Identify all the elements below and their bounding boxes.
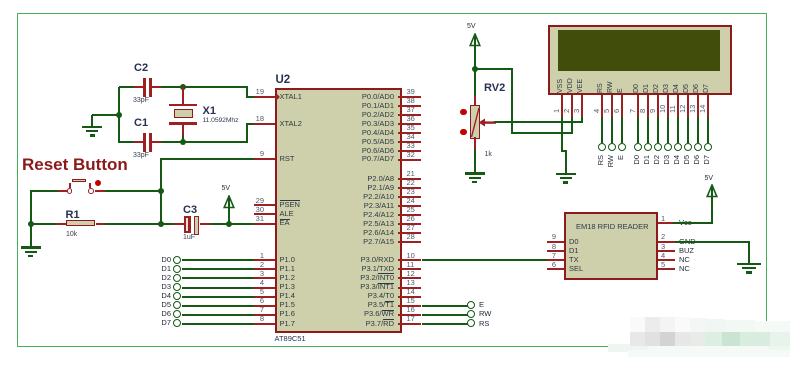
wire RST row: [162, 158, 255, 160]
EM18 pin label D0: [569, 238, 579, 246]
wire Vcc to 5V: [673, 222, 713, 224]
terminal LCD D4: [674, 143, 682, 151]
pin stub P1.1: [254, 268, 275, 270]
pin number 15: [407, 297, 415, 305]
wire button right: [105, 190, 162, 192]
EM18 pin stub Vcc: [658, 222, 675, 224]
wire LCD D3 to terminal: [667, 117, 669, 143]
label terminal D4: [153, 292, 171, 300]
pin number 3: [250, 270, 264, 278]
pin stub ALE: [254, 213, 275, 215]
pin stub P2.2: [398, 196, 422, 198]
LCD pin 6 stub: [621, 95, 623, 117]
value C1 33pF: [133, 152, 149, 160]
LCD pin number 14: [699, 104, 707, 112]
pin stub P1.0: [254, 259, 275, 261]
pin label P1.0: [280, 256, 295, 264]
power 5V arrow RV2: [468, 33, 482, 47]
pin number 11: [407, 261, 415, 269]
pin stub P3.2: [398, 277, 422, 279]
LCD pin label VEE: [577, 78, 585, 92]
junction left R1: [28, 221, 34, 227]
junction C2 crystal: [180, 84, 186, 90]
terminal D6 left: [173, 310, 181, 318]
pin number 5: [250, 288, 264, 296]
LCD pin number 12: [679, 104, 687, 112]
pin stub P2.4: [398, 214, 422, 216]
pin label P1.6: [280, 310, 295, 318]
pin number 33: [407, 142, 415, 150]
wire XTAL2 corner: [246, 123, 255, 125]
capacitor C3 pin right: [200, 223, 210, 225]
wire D7 to P1.7: [182, 323, 254, 325]
pin number 35: [407, 124, 415, 132]
button pin right: [95, 190, 105, 192]
pin number 19: [250, 88, 264, 96]
LCD pin label D0: [633, 84, 641, 93]
microcontroller U2 body: [275, 88, 402, 333]
pin label P0.5/AD5: [316, 138, 394, 146]
LCD pin 14 stub: [707, 95, 709, 117]
pin label P2.3/A11: [316, 202, 394, 210]
wire VSS to ground: [565, 151, 567, 173]
pin number 26: [407, 215, 415, 223]
EM18 pin label NC5: [679, 265, 690, 273]
pin stub P0.6: [398, 150, 422, 152]
pin number 12: [407, 270, 415, 278]
LCD pin label D5: [683, 84, 691, 93]
label C2: [134, 62, 148, 74]
pin label P0.1/AD1: [316, 102, 394, 110]
crystal X1 top pin: [182, 87, 184, 104]
label C1: [134, 117, 148, 129]
LCD pin 10 stub: [667, 95, 669, 117]
pin stub P2.7: [398, 241, 422, 243]
pin label P0.0/AD0: [316, 93, 394, 101]
capacitor C2 pin right: [152, 86, 162, 88]
pin label P3.5: [316, 301, 394, 309]
capacitor C2: [143, 78, 146, 97]
pin label P3.6: [316, 310, 394, 318]
terminal E: [467, 301, 475, 309]
junction reset R1: [158, 221, 164, 227]
pin label RST: [280, 155, 295, 163]
pin number 17: [407, 315, 415, 323]
LCD pin 13 stub: [697, 95, 699, 117]
LCD pin label D3: [663, 84, 671, 93]
pin label P0.2/AD2: [316, 111, 394, 119]
label terminal LCD D4: [673, 155, 681, 177]
label terminal LCD RS: [597, 155, 605, 177]
terminal LCD D0: [634, 143, 642, 151]
EM18 pin number 2: [661, 233, 665, 241]
wire GND drop: [748, 242, 750, 263]
power 5V stem EM18: [711, 187, 713, 225]
label X1: [203, 105, 216, 117]
wire C3 to EA: [210, 223, 255, 225]
label terminal LCD RW: [607, 155, 615, 177]
wire XTAL1 corner: [246, 96, 255, 98]
label Reset Button: [22, 155, 128, 174]
wire D2 to P1.2: [182, 277, 254, 279]
pin number 10: [407, 252, 415, 260]
LCD pin 7 stub: [637, 95, 639, 117]
terminal D0 left: [173, 256, 181, 264]
label U2: [276, 74, 291, 87]
pin number 7: [250, 306, 264, 314]
LCD pin 4 stub: [601, 95, 603, 117]
label terminal D2: [153, 274, 171, 282]
pot RV2 top pin: [474, 96, 476, 107]
label RV2: [484, 82, 505, 94]
wire VDD run: [512, 132, 573, 134]
terminal RS: [467, 319, 475, 327]
wire XTAL2 rise: [246, 124, 248, 142]
terminal LCD D2: [654, 143, 662, 151]
wire LCD D2 to terminal: [657, 117, 659, 143]
wire R1 left: [31, 223, 57, 225]
terminal D4 left: [173, 292, 181, 300]
crystal X1: [169, 104, 197, 107]
pin number 16: [407, 306, 415, 314]
label terminal D1: [153, 265, 171, 273]
label terminal RW: [479, 310, 491, 318]
label terminal D6: [153, 310, 171, 318]
pin stub P2.6: [398, 232, 422, 234]
wire VSS jog: [561, 150, 567, 152]
pin stub P0.7: [398, 159, 422, 161]
junction button reset: [158, 188, 164, 194]
wire P3.7 to terminal RS: [422, 323, 468, 325]
EM18 pin label GND: [679, 238, 696, 246]
LCD pin label VSS: [557, 78, 565, 92]
LCD pin number 2: [563, 109, 571, 113]
pin stub P3.7: [398, 323, 422, 325]
EM18 pin number 6: [542, 261, 556, 269]
wire LCD RS to terminal: [601, 117, 603, 143]
terminal LCD D7: [704, 143, 712, 151]
pin number 27: [407, 224, 415, 232]
EM18 pin stub BUZ: [658, 250, 675, 252]
pin stub XTAL1: [254, 96, 275, 98]
wire LCD D4 to terminal: [677, 117, 679, 143]
LCD pin label E: [617, 88, 625, 93]
pin number 28: [407, 233, 415, 241]
terminal D1 left: [173, 265, 181, 273]
pin number 37: [407, 106, 415, 114]
EM18 pin label NC4: [679, 256, 690, 264]
terminal LCD D3: [664, 143, 672, 151]
LCD pin number 10: [659, 104, 667, 112]
EM18 pin stub SEL: [547, 268, 564, 270]
pin label XTAL2: [280, 120, 302, 128]
pin label P1.5: [280, 301, 295, 309]
pin number 13: [407, 279, 415, 287]
capacitor C1 pin right: [152, 141, 162, 143]
pin label ALE: [280, 210, 294, 218]
pin stub P0.2: [398, 114, 422, 116]
wire pot to ground: [474, 149, 476, 172]
pin number 1: [250, 252, 264, 260]
LCD pin label D4: [673, 84, 681, 93]
wire C1 left: [119, 141, 134, 143]
pin stub P3.0: [398, 259, 422, 261]
terminal LCD RW: [608, 143, 616, 151]
pin label EA: [280, 219, 290, 227]
pin stub P1.4: [254, 296, 275, 298]
EM18 pin number 1: [661, 215, 665, 223]
pin label P0.4/AD4: [316, 129, 394, 137]
EM18 pin number 3: [661, 243, 665, 251]
push button: [67, 188, 73, 194]
wire D1 to P1.1: [182, 268, 254, 270]
pin stub P2.3: [398, 205, 422, 207]
LCD pin 2 stub: [571, 95, 573, 117]
pin label PSEN: [280, 201, 300, 209]
label terminal D5: [153, 301, 171, 309]
wire VEE drop: [581, 117, 583, 123]
pin stub P0.5: [398, 141, 422, 143]
pin stub P0.4: [398, 132, 422, 134]
pin stub PSEN: [254, 204, 275, 206]
EM18 pin stub NC4: [658, 259, 675, 261]
pin number 30: [250, 206, 264, 214]
pin label P2.6/A14: [316, 229, 394, 237]
ground G1: [82, 126, 102, 129]
pin label P1.1: [280, 265, 295, 273]
LCD pin label D6: [693, 84, 701, 93]
EM18 pin number 9: [542, 233, 556, 241]
pin stub P2.0: [398, 178, 422, 180]
pin label P1.3: [280, 283, 295, 291]
label terminal LCD D3: [663, 155, 671, 177]
label terminal D3: [153, 283, 171, 291]
wire P3.6 to terminal RW: [422, 314, 468, 316]
LCD pin number 3: [573, 109, 581, 113]
resistor R1 pin left: [57, 223, 66, 225]
pin number 38: [407, 97, 415, 105]
LCD screen: [558, 30, 721, 71]
wire button left: [30, 190, 58, 192]
power 5V stem RV2: [474, 35, 476, 96]
wire LCD D6 to terminal: [697, 117, 699, 143]
wire VDD rise: [571, 117, 573, 133]
LCD pin label D2: [653, 84, 661, 93]
pin stub P1.2: [254, 277, 275, 279]
LCD pin number 6: [613, 109, 621, 113]
pin label P0.3/AD3: [316, 120, 394, 128]
LCD pin 1 stub: [561, 95, 563, 117]
wire caps left vertical: [118, 87, 120, 143]
wire D6 to P1.6: [182, 314, 254, 316]
wire LCD D0 to terminal: [637, 117, 639, 143]
ground stem G1: [91, 115, 93, 126]
label terminal LCD E: [617, 155, 625, 177]
pin label P1.4: [280, 292, 295, 300]
label EM18 RFID READER: [576, 223, 649, 231]
pin number 23: [407, 188, 415, 196]
pin label P0.6/AD6: [316, 147, 394, 155]
pin label XTAL1: [280, 93, 302, 101]
LCD pin label D7: [703, 84, 711, 93]
wire R1 to C3: [105, 223, 174, 225]
terminal D5 left: [173, 301, 181, 309]
LCD pin 9 stub: [657, 95, 659, 117]
LCD pin number 13: [689, 104, 697, 112]
wire LCD D1 to terminal: [647, 117, 649, 143]
wire LCD RW to terminal: [611, 117, 613, 143]
pot RV2 pin dot upper: [460, 109, 467, 116]
potentiometer RV2: [470, 105, 481, 139]
power 5V arrow EM18: [705, 184, 719, 198]
wire D4 to P1.4: [182, 296, 254, 298]
label terminal LCD D6: [693, 155, 701, 177]
EM18 pin label BUZ: [679, 247, 694, 255]
label terminal LCD D1: [643, 155, 651, 177]
wire C2 to XTAL1: [161, 86, 248, 88]
pin number 32: [407, 151, 415, 159]
pin number 8: [250, 315, 264, 323]
pin label P2.5/A13: [316, 220, 394, 228]
pot RV2 pin dot lower: [460, 129, 467, 136]
pin label P3.4: [316, 292, 394, 300]
wire VSS down: [561, 117, 563, 152]
LCD pin 12 stub: [687, 95, 689, 117]
wire D5 to P1.5: [182, 305, 254, 307]
wire LCD E to terminal: [621, 117, 623, 143]
pin stub P3.5: [398, 305, 422, 307]
LCD pin label VDD: [567, 78, 575, 93]
capacitor C3: [184, 216, 191, 233]
wire reset vertical: [160, 158, 162, 225]
junction 5V RV2: [472, 66, 478, 72]
EM18 pin stub NC5: [658, 268, 675, 270]
capacitor C1 pin left: [134, 141, 143, 143]
pin stub P0.1: [398, 105, 422, 107]
wire C2 left: [119, 86, 134, 88]
resistor R1 pin right: [96, 223, 105, 225]
ground G5 EM18: [737, 263, 761, 266]
wire left vertical to ground: [30, 190, 32, 246]
label terminal LCD D5: [683, 155, 691, 177]
terminal D7 left: [173, 319, 181, 327]
EM18 pin number 5: [661, 261, 665, 269]
wire P3.5 to terminal E: [422, 305, 468, 307]
wire GND run: [675, 241, 751, 243]
EM18 pin label TX: [569, 256, 579, 264]
pin label P1.2: [280, 274, 295, 282]
terminal D2 left: [173, 274, 181, 282]
pin number 21: [407, 170, 415, 178]
button pin left: [58, 190, 67, 192]
pin number 34: [407, 133, 415, 141]
label terminal D0: [153, 256, 171, 264]
EM18 pin label SEL: [569, 265, 583, 273]
wire C1 to XTAL2: [161, 141, 248, 143]
label terminal LCD D7: [703, 155, 711, 177]
LCD pin number 7: [629, 109, 637, 113]
pin label P2.0/A8: [316, 175, 394, 183]
terminal LCD D1: [644, 143, 652, 151]
pin stub P3.3: [398, 287, 422, 289]
pot RV2 bottom pin: [474, 137, 476, 149]
LCD pin number 9: [649, 109, 657, 113]
capacitor C1: [143, 133, 146, 152]
LCD pin number 5: [603, 109, 611, 113]
terminal LCD D6: [694, 143, 702, 151]
label C3: [183, 204, 197, 216]
crystal X1 bottom pin: [182, 125, 184, 135]
wire LCD D5 to terminal: [687, 117, 689, 143]
junction C1 crystal: [180, 139, 186, 145]
EM18 pin number 7: [542, 252, 556, 260]
pin stub P1.7: [254, 323, 275, 325]
LCD pin number 11: [669, 105, 677, 113]
LCD pin number 4: [593, 109, 601, 113]
pin number 2: [250, 261, 264, 269]
wire wiper to VEE: [494, 121, 583, 123]
wire P3.0 to EM18 TX: [422, 259, 548, 261]
pin stub P1.6: [254, 314, 275, 316]
pin label P3.1: [316, 265, 394, 273]
pin stub P1.3: [254, 287, 275, 289]
power 5V stem: [228, 197, 230, 224]
EM18 pin stub D0: [547, 241, 564, 243]
LCD pin number 8: [639, 109, 647, 113]
EM18 pin stub TX: [547, 259, 564, 261]
pin label P2.2/A10: [316, 193, 394, 201]
pin number 9: [250, 150, 264, 158]
pin stub P0.3: [398, 123, 422, 125]
LCD pin number 1: [553, 109, 561, 113]
LCD display body: [548, 25, 732, 96]
ground G4 under VSS: [556, 173, 576, 176]
LCD pin 11 stub: [677, 95, 679, 117]
resistor R1: [66, 220, 95, 227]
EM18 RFID reader body: [564, 212, 658, 280]
pin stub EA: [254, 223, 275, 225]
pin number 18: [250, 115, 264, 123]
pin label P3.0: [316, 256, 394, 264]
value C3 1uF: [183, 234, 195, 242]
label terminal E: [479, 301, 484, 309]
pin stub P2.5: [398, 223, 422, 225]
value R1 10k: [66, 231, 77, 239]
label terminal D7: [153, 319, 171, 327]
wire VDD drop: [511, 69, 513, 134]
pin label P2.4/A12: [316, 211, 394, 219]
power 5V arrow C3: [222, 195, 236, 209]
LCD pin label RW: [607, 81, 615, 93]
wire crystal to junction: [182, 135, 184, 142]
ground G3 under RV2: [465, 172, 485, 175]
EM18 pin number 4: [661, 252, 665, 260]
watermark mosaic: [608, 344, 790, 353]
capacitor C2 pin left: [134, 86, 143, 88]
pin label P3.2: [316, 274, 394, 282]
wire XTAL1 drop: [246, 87, 248, 97]
wire ground tap to caps: [92, 114, 119, 116]
terminal LCD RS: [598, 143, 606, 151]
pin number 22: [407, 179, 415, 187]
label AT89C51: [275, 335, 306, 343]
wire LCD D7 to terminal: [707, 117, 709, 143]
pin number 4: [250, 279, 264, 287]
EM18 pin stub D1: [547, 250, 564, 252]
EM18 pin label Vcc: [679, 219, 692, 227]
terminal LCD E: [618, 143, 626, 151]
pin label P1.7: [280, 320, 295, 328]
